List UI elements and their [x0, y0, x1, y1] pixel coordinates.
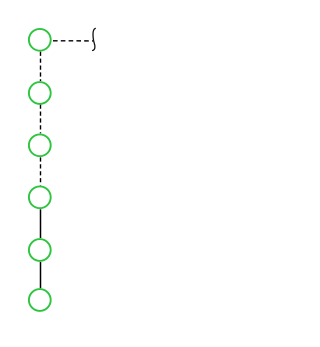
wire: solid link N4-N5: [40, 209, 42, 238]
wire: solid link N5-N6: [40, 262, 42, 288]
node N4: [29, 186, 51, 208]
node N5: [29, 239, 51, 261]
node N6: [29, 289, 51, 311]
node N3: [29, 134, 51, 156]
node N1: [29, 29, 51, 51]
wire: dashed link N1-N2: [40, 52, 42, 81]
wire: dashed link N3-N4: [40, 157, 42, 185]
wire: horizontal dashed link from node N1 to squiggle: [53, 40, 93, 42]
squiggle terminator glyph: [93, 28, 96, 50]
node N2: [29, 82, 51, 104]
wire: dashed link N2-N3: [40, 105, 42, 134]
